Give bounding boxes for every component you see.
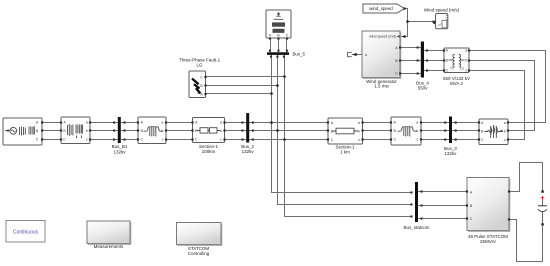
wire impedance block to wind transformer phase b bbox=[469, 61, 535, 131]
svg-text:b: b bbox=[465, 59, 467, 63]
junction dot phase C tap bbox=[283, 138, 286, 141]
wire bus B5 tap 1 down to statcom bus bbox=[272, 55, 413, 193]
powergui Continuous block bbox=[6, 221, 45, 243]
wire statcom DC minus to capacitor bbox=[509, 220, 543, 262]
svg-text:c: c bbox=[162, 138, 164, 142]
junction dot at scope branch bbox=[406, 20, 409, 23]
svg-text:c: c bbox=[465, 69, 467, 73]
wire wind generator to bus B4 bbox=[400, 48, 421, 74]
svg-text:MVA 2: MVA 2 bbox=[450, 81, 463, 86]
svg-text:1 km: 1 km bbox=[340, 150, 350, 155]
svg-text:Y2: Y2 bbox=[450, 67, 454, 71]
svg-text:c: c bbox=[220, 138, 222, 142]
svg-text:25MVAr: 25MVAr bbox=[480, 239, 496, 244]
junction dot fault C bbox=[283, 75, 286, 78]
bus B3 bbox=[444, 117, 457, 157]
transformer T3 bbox=[390, 117, 422, 145]
wire bus B5 tap 2 down to statcom bus bbox=[278, 55, 413, 205]
junction dot phase A tap bbox=[270, 121, 273, 124]
svg-text:c: c bbox=[86, 138, 88, 142]
wire unconnected generator input stub bbox=[352, 54, 362, 56]
wire statcom DC plus to capacitor bbox=[509, 163, 543, 192]
svg-text:c: c bbox=[358, 138, 360, 142]
scope Wind speed (m/s) bbox=[424, 8, 460, 29]
svg-text:Wind speed (m/s): Wind speed (m/s) bbox=[424, 8, 460, 13]
arrowhead into scope bbox=[433, 20, 436, 25]
svg-text:a: a bbox=[416, 121, 418, 125]
wire fault phase C to vertical bbox=[206, 76, 285, 78]
svg-text:LG: LG bbox=[196, 63, 203, 68]
svg-text:550v: 550v bbox=[418, 86, 429, 91]
DC link capacitor bbox=[538, 190, 547, 225]
svg-text:wind_speed: wind_speed bbox=[369, 6, 393, 11]
from tag wind_speed bbox=[363, 4, 406, 13]
svg-text:D1: D1 bbox=[460, 67, 464, 71]
junction dot phase B tap bbox=[276, 129, 279, 132]
junction dot fault B bbox=[276, 84, 279, 87]
svg-text:b: b bbox=[162, 129, 164, 133]
svg-text:Bus_statcom: Bus_statcom bbox=[403, 225, 429, 230]
svg-text:a: a bbox=[358, 121, 360, 125]
svg-text:a: a bbox=[220, 121, 222, 125]
bus B4 bbox=[416, 42, 429, 91]
open connector symbol at generator stub bbox=[348, 52, 352, 56]
arrowhead on generator stub pointing left bbox=[352, 53, 356, 57]
transformer T2 bbox=[137, 117, 167, 144]
wire fault phase B to vertical bbox=[206, 85, 278, 87]
wire branch to scope bbox=[408, 21, 436, 23]
svg-text:b: b bbox=[504, 130, 506, 134]
statcom controlling subsystem bbox=[177, 223, 222, 257]
svg-text:b: b bbox=[220, 129, 222, 133]
bus statcom bbox=[403, 182, 429, 230]
wire T1 to bus B1 bbox=[90, 123, 118, 140]
wind transformer 550V/132kV bbox=[443, 48, 470, 86]
zigzag grounding transformer bbox=[266, 10, 291, 40]
svg-text:a: a bbox=[86, 121, 88, 125]
line section 1km bbox=[327, 118, 364, 155]
svg-text:a: a bbox=[465, 49, 467, 53]
bus B1 bbox=[112, 117, 128, 154]
svg-text:1.5 mw: 1.5 mw bbox=[374, 83, 389, 88]
three-phase source block bbox=[3, 118, 43, 145]
wire bus B2 to section 1km bbox=[249, 123, 328, 140]
arrowhead into generator wind input bbox=[402, 35, 406, 38]
svg-text:c: c bbox=[504, 138, 506, 142]
wire impedance block to wind transformer phase c bbox=[469, 71, 525, 140]
wire T3 to bus B3 bbox=[421, 123, 449, 140]
wire bus B1 to T2 bbox=[121, 123, 138, 140]
wire bus B3 to impedance block bbox=[452, 123, 479, 140]
svg-text:b: b bbox=[86, 129, 88, 133]
svg-text:a: a bbox=[365, 53, 367, 57]
wire from tag wind_speed down to generator input bbox=[402, 9, 408, 37]
measurements subsystem bbox=[87, 221, 131, 249]
wire fault phase A to vertical bbox=[206, 93, 272, 95]
bus B5 bbox=[267, 50, 306, 58]
wire bus B4 to wind transformer bbox=[424, 51, 444, 71]
svg-text:Bus_5: Bus_5 bbox=[293, 51, 306, 56]
svg-text:c: c bbox=[416, 138, 418, 142]
wire section 100km to bus B2 bbox=[225, 123, 247, 140]
wire section 1km to T3 bbox=[363, 123, 392, 140]
bus B2 bbox=[241, 113, 254, 154]
svg-text:b: b bbox=[416, 129, 418, 133]
wire source to T1 bbox=[43, 123, 61, 140]
svg-text:132kv: 132kv bbox=[242, 149, 255, 154]
wind generator block bbox=[362, 31, 401, 88]
svg-text:wind speed (m/s): wind speed (m/s) bbox=[369, 34, 396, 38]
svg-text:Continuous: Continuous bbox=[13, 230, 39, 236]
svg-text:100km: 100km bbox=[202, 149, 216, 154]
svg-text:a: a bbox=[162, 121, 164, 125]
junction dot fault A bbox=[270, 92, 273, 95]
transformer T1 bbox=[60, 117, 91, 144]
line section 100km bbox=[191, 118, 225, 155]
wire impedance block to wind transformer phase a bbox=[469, 51, 546, 123]
wire bus B5 tap 3 down to statcom bus bbox=[285, 55, 413, 217]
wire zigzag transformer to bus B5 bbox=[271, 39, 287, 53]
statcom 48 pulse block bbox=[466, 178, 510, 245]
series impedance block bbox=[478, 119, 509, 145]
three-phase fault block bbox=[179, 58, 221, 98]
svg-text:132kv: 132kv bbox=[444, 151, 457, 156]
wire T2 to section 100km bbox=[166, 123, 193, 140]
svg-text:Controlling: Controlling bbox=[188, 251, 210, 256]
svg-text:132kv: 132kv bbox=[113, 149, 126, 154]
svg-text:Measurements: Measurements bbox=[94, 244, 125, 249]
svg-text:a: a bbox=[504, 121, 506, 125]
svg-text:b: b bbox=[358, 130, 360, 134]
wire statcom bus to statcom block bbox=[418, 192, 467, 219]
